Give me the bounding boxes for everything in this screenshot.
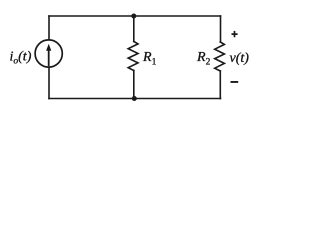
svg-text:io(t): io(t) (10, 50, 32, 67)
svg-text:v(t): v(t) (230, 51, 250, 66)
